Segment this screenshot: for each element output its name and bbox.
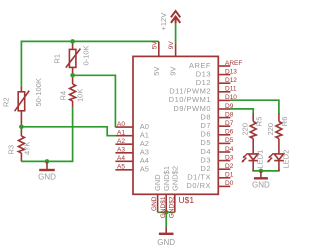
left inside labels A0-A5 bbox=[140, 122, 149, 174]
node junction R2-R3-A1 bbox=[19, 125, 24, 130]
svg-text:GND: GND bbox=[157, 238, 175, 247]
svg-text:47K: 47K bbox=[23, 142, 32, 155]
right pin names red AREF..D0 bbox=[225, 60, 242, 187]
LED1 diode symbol bbox=[249, 154, 258, 171]
node junction led gnd bbox=[259, 169, 264, 174]
LED1 emission arrows bbox=[241, 153, 247, 162]
svg-text:D4: D4 bbox=[225, 146, 234, 153]
ground symbol led GND bbox=[254, 171, 268, 178]
svg-text:GND: GND bbox=[151, 196, 158, 211]
LED2 emission arrows bbox=[267, 153, 273, 162]
svg-text:D2: D2 bbox=[225, 163, 234, 170]
svg-text:R5: R5 bbox=[255, 117, 264, 127]
wire R1 junction to A0 bbox=[73, 75, 116, 127]
resistor R4 10K bbox=[70, 78, 76, 107]
right pin stubs AREF..D0 bbox=[218, 66, 230, 186]
svg-text:D3: D3 bbox=[225, 154, 234, 161]
svg-text:10K: 10K bbox=[76, 89, 85, 102]
left pin names red A0-A5 bbox=[117, 121, 125, 171]
svg-text:R1: R1 bbox=[53, 54, 62, 64]
bottom pin stubs GND GND$1 GND$2 bbox=[158, 194, 175, 212]
svg-text:AREF: AREF bbox=[225, 60, 242, 67]
svg-text:D12: D12 bbox=[225, 77, 237, 84]
LED2 diode symbol bbox=[274, 154, 283, 171]
svg-text:9V: 9V bbox=[169, 67, 178, 76]
svg-text:U$1: U$1 bbox=[179, 195, 195, 205]
svg-text:R2: R2 bbox=[1, 97, 10, 107]
resistor R2 (potentiometer) bbox=[15, 86, 30, 125]
svg-text:A2: A2 bbox=[117, 138, 125, 145]
svg-text:GND: GND bbox=[252, 180, 270, 189]
svg-text:A5: A5 bbox=[140, 165, 149, 174]
resistor R5 220 bbox=[250, 113, 256, 154]
svg-text:D0: D0 bbox=[225, 180, 234, 187]
svg-text:A3: A3 bbox=[117, 147, 125, 154]
left pin stubs A0-A5 bbox=[115, 127, 133, 170]
svg-text:GND$2: GND$2 bbox=[168, 196, 175, 218]
svg-text:D5: D5 bbox=[225, 137, 234, 144]
svg-text:D6: D6 bbox=[225, 129, 234, 136]
node junction R1 top bbox=[70, 39, 75, 44]
op-amp U1 box (IC body) bbox=[133, 56, 218, 194]
wire GND rail left bbox=[21, 107, 72, 162]
svg-text:D9: D9 bbox=[225, 103, 234, 110]
svg-text:R4: R4 bbox=[59, 91, 68, 101]
ground symbol bottom GND bbox=[159, 227, 174, 234]
svg-text:R3: R3 bbox=[7, 145, 16, 155]
svg-text:R6: R6 bbox=[280, 117, 289, 127]
wire 9V to +12V arrow bbox=[175, 23, 177, 45]
node junction gnd bottom bbox=[164, 210, 169, 215]
wire bottom gnd connector bbox=[158, 211, 175, 213]
ground symbol left GND bbox=[39, 161, 55, 170]
svg-text:+12V: +12V bbox=[159, 13, 168, 31]
svg-text:220: 220 bbox=[266, 123, 275, 136]
svg-text:GND$1: GND$1 bbox=[160, 196, 167, 218]
svg-text:220: 220 bbox=[241, 123, 250, 136]
svg-text:D0/RX: D0/RX bbox=[186, 181, 211, 190]
svg-text:A0: A0 bbox=[117, 121, 125, 128]
svg-text:5V: 5V bbox=[152, 67, 161, 76]
pin 5V top stub bbox=[158, 41, 160, 56]
resistor R3 47K bbox=[18, 129, 24, 161]
wire D10 to R6 bbox=[230, 100, 279, 113]
svg-text:9V: 9V bbox=[168, 41, 175, 50]
svg-text:GND$2: GND$2 bbox=[170, 166, 179, 191]
svg-text:A5: A5 bbox=[117, 164, 125, 171]
wire D9 to R5 bbox=[230, 109, 253, 114]
svg-text:GND: GND bbox=[38, 172, 56, 181]
svg-text:LED2: LED2 bbox=[281, 150, 290, 169]
svg-text:50-100K: 50-100K bbox=[34, 78, 43, 106]
svg-text:5V: 5V bbox=[151, 41, 158, 50]
+12V supply symbol bbox=[171, 11, 180, 23]
svg-text:D8: D8 bbox=[225, 111, 234, 118]
node junction R1-R4-A0 bbox=[70, 73, 75, 78]
resistor R1 (potentiometer) bbox=[66, 44, 81, 74]
svg-text:LED1: LED1 bbox=[256, 150, 265, 169]
wire LED gnd rail bbox=[253, 169, 279, 171]
resistor R6 220 bbox=[276, 113, 282, 154]
svg-text:A1: A1 bbox=[117, 129, 125, 136]
node junction gnd left bbox=[45, 159, 50, 164]
wire top rail +12V net bbox=[21, 41, 158, 85]
svg-text:D10: D10 bbox=[225, 94, 237, 101]
svg-text:D11: D11 bbox=[225, 86, 237, 93]
svg-text:0-10K: 0-10K bbox=[82, 45, 91, 65]
svg-text:D1: D1 bbox=[225, 172, 234, 179]
svg-text:A4: A4 bbox=[117, 155, 125, 162]
svg-text:D13: D13 bbox=[225, 68, 237, 75]
svg-text:D7: D7 bbox=[225, 120, 234, 127]
pin 9V top stub bbox=[175, 44, 177, 56]
wire R2 junction to A1 bbox=[21, 127, 115, 136]
right inside labels bbox=[169, 61, 211, 190]
